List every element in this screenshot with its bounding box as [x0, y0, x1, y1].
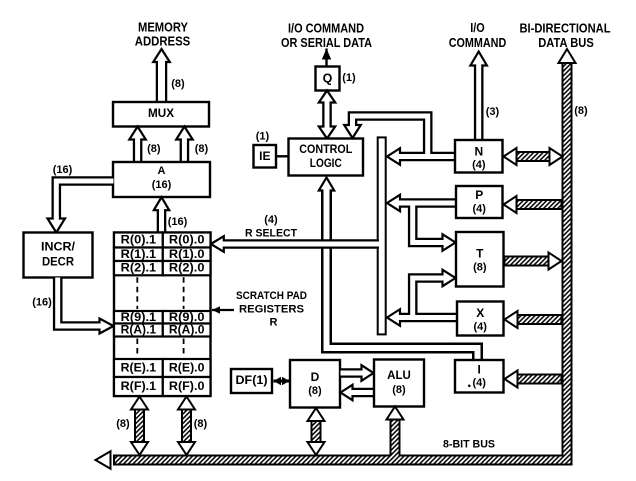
bus connector ALU — [387, 407, 404, 461]
svg-text:LOGIC: LOGIC — [310, 158, 342, 170]
svg-text:T: T — [476, 247, 484, 261]
svg-text:(8): (8) — [308, 385, 322, 397]
wire MUX to MEMORY ADDRESS with (8) — [153, 49, 185, 103]
svg-text:N: N — [474, 145, 483, 159]
svg-text:(4): (4) — [472, 377, 486, 389]
flag IE with (1) — [254, 131, 277, 168]
svg-text:CONTROL: CONTROL — [299, 144, 352, 156]
bus connector T — [505, 253, 562, 270]
wire Q to I/O command label — [322, 49, 331, 67]
svg-text:(16): (16) — [53, 164, 73, 176]
register T — [456, 232, 504, 287]
svg-text:R: R — [270, 317, 278, 329]
svg-text:ALU: ALU — [387, 370, 411, 382]
svg-text:R(9).0: R(9).0 — [169, 312, 205, 324]
label BI-DIRECTIONAL DATA BUS — [520, 22, 611, 51]
label MEMORY ADDRESS — [135, 21, 191, 49]
block CONTROL LOGIC — [289, 139, 364, 176]
svg-text:INCR/: INCR/ — [41, 242, 76, 254]
wire N to I/O COMMAND with (3) — [470, 52, 499, 141]
svg-text:(16): (16) — [168, 216, 188, 228]
register X — [457, 302, 504, 336]
svg-text:(16): (16) — [32, 297, 52, 309]
svg-text:(16): (16) — [152, 179, 172, 191]
svg-text:(4): (4) — [473, 321, 487, 333]
wire N to internal bus and CONTROL LOGIC — [344, 116, 455, 165]
bus connector scratch pad low byte with (8) — [178, 397, 208, 456]
svg-text:(4): (4) — [472, 203, 486, 215]
svg-text:(8): (8) — [473, 262, 487, 274]
svg-text:I/O: I/O — [470, 21, 485, 35]
svg-text:R(1).0: R(1).0 — [169, 249, 205, 261]
wire DF to D (bidirectional) — [274, 377, 290, 385]
svg-text:R SELECT: R SELECT — [245, 228, 297, 240]
svg-text:R(2).0: R(2).0 — [169, 263, 205, 275]
svg-text:R(F).1: R(F).1 — [121, 381, 157, 393]
register A — [113, 162, 210, 197]
svg-text:8-BIT BUS: 8-BIT BUS — [443, 439, 495, 451]
svg-text:ADDRESS: ADDRESS — [135, 35, 191, 49]
register N — [455, 140, 503, 173]
label I/O COMMAND OR SERIAL DATA — [281, 22, 372, 51]
wire R SELECT to scratch pad with (4) — [211, 214, 379, 252]
svg-text:IE: IE — [259, 149, 270, 163]
wire A to MUX left with (8) — [129, 127, 161, 163]
scratch pad register file R(0)-R(F) — [114, 233, 211, 397]
svg-text:R(A).0: R(A).0 — [169, 325, 205, 337]
svg-text:(8): (8) — [392, 384, 406, 396]
svg-text:R(E).1: R(E).1 — [121, 363, 157, 375]
svg-text:P: P — [475, 188, 483, 202]
label I/O COMMAND — [449, 21, 507, 50]
wire I register to CONTROL LOGIC — [319, 178, 478, 361]
svg-text:(8): (8) — [116, 418, 130, 430]
bus connector P — [504, 196, 562, 213]
block ALU — [374, 360, 424, 407]
svg-text:Q: Q — [323, 72, 333, 86]
block MUX — [113, 102, 209, 127]
bus connector I — [505, 371, 562, 388]
svg-text:DECR: DECR — [42, 257, 75, 269]
svg-text:R(F).0: R(F).0 — [169, 381, 205, 393]
wire P to internal bus and T — [387, 195, 457, 251]
svg-text:I: I — [478, 363, 481, 377]
svg-text:R(0).0: R(0).0 — [169, 235, 205, 247]
wire X to internal bus and T — [387, 270, 458, 326]
svg-text:REGISTERS: REGISTERS — [239, 304, 304, 316]
svg-text:MUX: MUX — [148, 108, 174, 120]
svg-text:R(E).0: R(E).0 — [169, 363, 205, 375]
bus connector N (bidirectional) — [504, 148, 563, 165]
bus connector scratch pad high byte with (8) — [116, 397, 148, 456]
wire IE to CONTROL LOGIC — [275, 155, 290, 157]
svg-text:D: D — [311, 370, 320, 384]
svg-text:COMMAND: COMMAND — [449, 36, 507, 50]
svg-text:BI-DIRECTIONAL: BI-DIRECTIONAL — [520, 22, 611, 36]
svg-text:(8): (8) — [195, 143, 209, 155]
wire INCR/DECR to scratch pad with (16) — [32, 278, 113, 334]
svg-text:DF(1): DF(1) — [236, 375, 268, 387]
svg-text:(4): (4) — [264, 214, 278, 226]
wire A to MUX right with (8) — [176, 127, 208, 163]
svg-text:X: X — [476, 306, 484, 320]
label SCRATCH PAD REGISTERS R — [212, 290, 307, 329]
svg-text:R(1).1: R(1).1 — [121, 249, 157, 261]
bus connector D (bidirectional) — [308, 408, 325, 455]
wire Q to CONTROL LOGIC (bidirectional) — [319, 91, 335, 139]
svg-text:DATA BUS: DATA BUS — [538, 36, 594, 50]
svg-text:OR SERIAL DATA: OR SERIAL DATA — [281, 36, 372, 50]
bus connector X — [505, 311, 562, 328]
register D — [290, 360, 340, 408]
svg-text:(8): (8) — [194, 418, 208, 430]
svg-text:R(9).1: R(9).1 — [121, 312, 157, 324]
svg-text:MEMORY: MEMORY — [138, 21, 189, 35]
svg-text:SCRATCH PAD: SCRATCH PAD — [236, 290, 307, 302]
register P — [456, 186, 503, 218]
wire A to INCR/DECR with (16) — [48, 164, 114, 233]
flip-flop Q with (1) — [316, 67, 357, 91]
block INCR/DECR — [24, 233, 93, 278]
register I — [455, 360, 504, 393]
svg-text:(8): (8) — [171, 78, 185, 90]
svg-text:R(2).1: R(2).1 — [121, 263, 157, 275]
svg-text:(8): (8) — [147, 143, 161, 155]
svg-text:(8): (8) — [574, 105, 588, 117]
svg-text:R(0).1: R(0).1 — [121, 235, 157, 247]
svg-text:R(A).1: R(A).1 — [121, 325, 157, 337]
svg-text:(1): (1) — [256, 131, 270, 143]
svg-text:(1): (1) — [342, 72, 356, 84]
internal bus bar — [378, 137, 386, 334]
svg-text:(3): (3) — [486, 106, 500, 118]
flag DF(1) — [231, 369, 272, 393]
svg-text:A: A — [158, 165, 166, 177]
wire ALU to D — [341, 385, 424, 400]
svg-text:(4): (4) — [472, 159, 486, 171]
svg-text:I/O COMMAND: I/O COMMAND — [288, 22, 364, 36]
wire scratch pad to A with (16) — [154, 197, 188, 233]
wire D to ALU — [341, 365, 374, 381]
bi-directional data bus with (8) — [96, 49, 589, 469]
